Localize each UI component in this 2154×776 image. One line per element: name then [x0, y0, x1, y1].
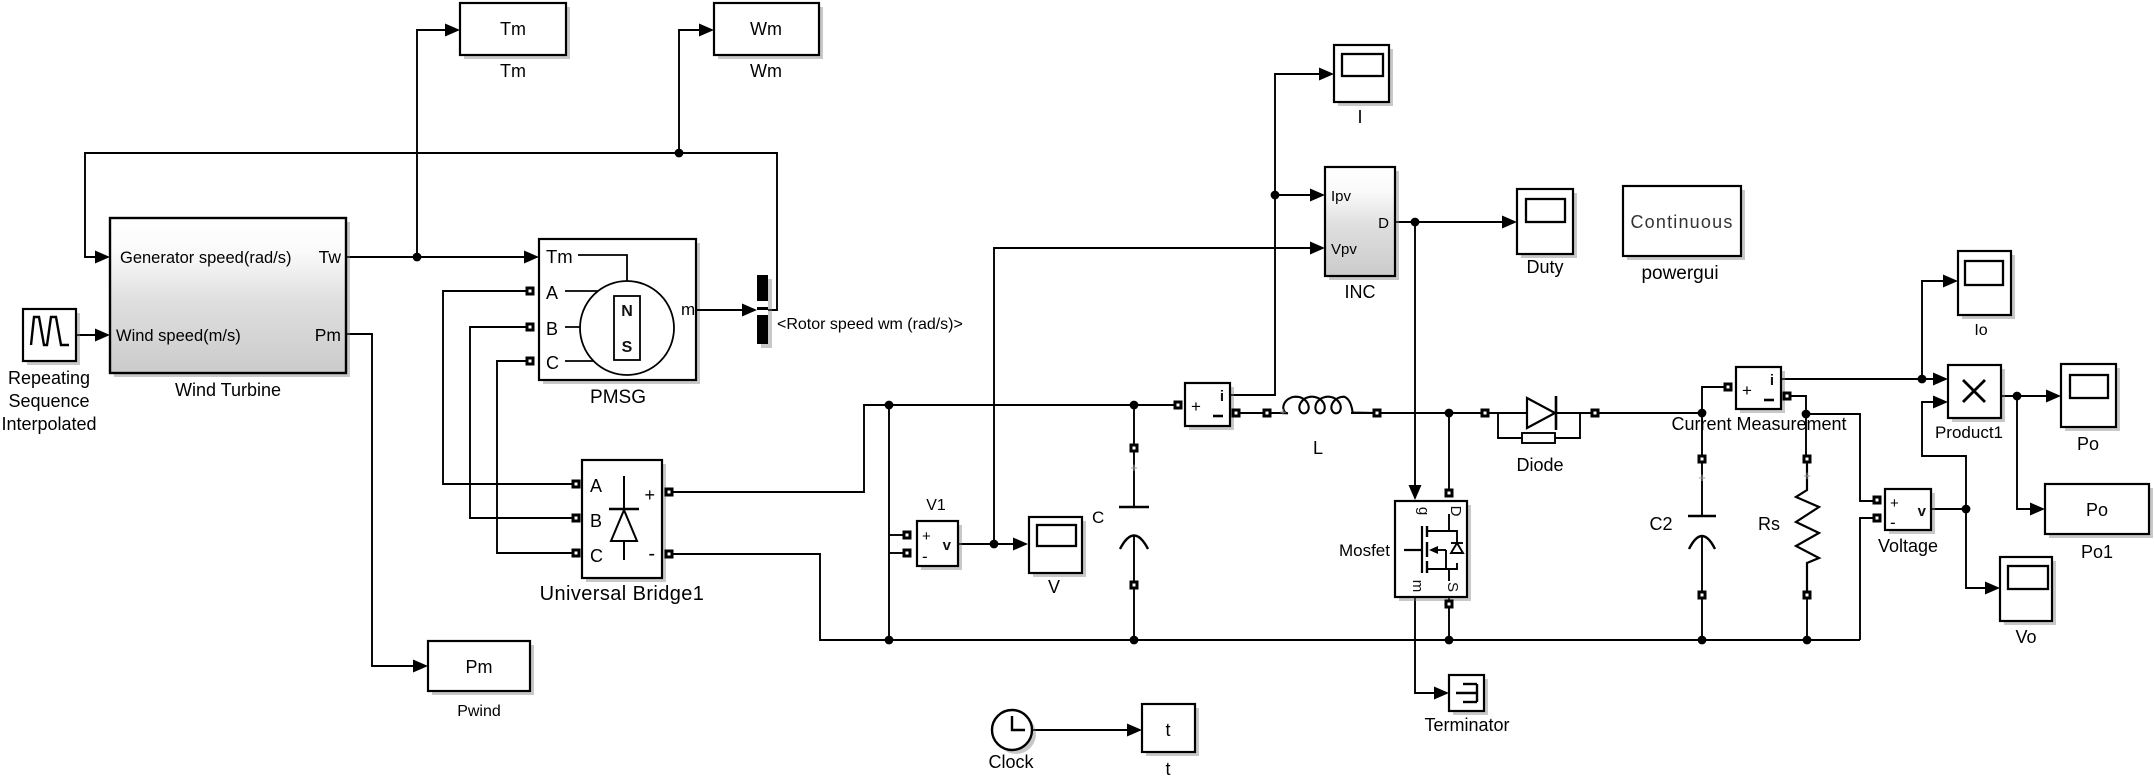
svg-text:C: C	[1092, 508, 1104, 527]
svg-text:Io: Io	[1974, 322, 1987, 339]
svg-text:Tm: Tm	[546, 246, 573, 267]
svg-text:-: -	[922, 547, 928, 566]
svg-text:B: B	[590, 511, 602, 531]
svg-text:I: I	[1357, 107, 1362, 127]
svg-text:Wind Turbine: Wind Turbine	[175, 380, 281, 400]
svg-text:C: C	[590, 546, 603, 566]
svg-text:Tm: Tm	[500, 61, 526, 81]
svg-text:+: +	[1698, 470, 1706, 485]
svg-text:i: i	[1220, 388, 1224, 405]
svg-text:Voltage: Voltage	[1878, 536, 1938, 556]
svg-text:Po1: Po1	[2081, 542, 2113, 562]
svg-text:V: V	[1048, 577, 1060, 597]
svg-text:Tm: Tm	[500, 19, 526, 39]
svg-text:+: +	[1890, 495, 1899, 512]
svg-text:Repeating: Repeating	[8, 368, 90, 388]
svg-text:C: C	[546, 353, 559, 373]
svg-text:Duty: Duty	[1526, 257, 1563, 277]
svg-text:Sequence: Sequence	[8, 391, 89, 411]
svg-text:Rs: Rs	[1758, 514, 1780, 534]
svg-text:S: S	[622, 339, 633, 356]
svg-text:v: v	[1918, 503, 1927, 520]
svg-text:m: m	[681, 300, 695, 319]
svg-text:Wind speed(m/s): Wind speed(m/s)	[116, 327, 241, 345]
svg-text:C2: C2	[1649, 514, 1672, 534]
svg-text:Clock: Clock	[988, 752, 1034, 772]
svg-text:Universal Bridge1: Universal Bridge1	[540, 583, 705, 605]
svg-text:+: +	[644, 485, 655, 505]
svg-text:+: +	[1130, 460, 1138, 475]
svg-text:B: B	[546, 319, 558, 339]
svg-text:+: +	[1803, 468, 1811, 483]
svg-text:-: -	[648, 543, 655, 565]
svg-text:Vo: Vo	[2015, 627, 2036, 647]
svg-text:Continuous: Continuous	[1630, 212, 1733, 232]
svg-text:Vpv: Vpv	[1331, 241, 1357, 258]
svg-text:Pwind: Pwind	[457, 703, 501, 720]
svg-text:S: S	[1444, 582, 1461, 592]
svg-text:Interpolated: Interpolated	[1, 414, 96, 434]
svg-text:N: N	[621, 303, 633, 320]
svg-text:+: +	[1742, 381, 1752, 400]
svg-text:L: L	[1313, 438, 1323, 458]
svg-text:Ipv: Ipv	[1331, 188, 1352, 205]
svg-text:-: -	[1890, 513, 1896, 532]
svg-text:Current Measurement: Current Measurement	[1671, 414, 1846, 434]
svg-text:V1: V1	[926, 497, 946, 514]
svg-text:D: D	[1378, 215, 1389, 232]
svg-text:Generator speed(rad/s): Generator speed(rad/s)	[120, 249, 292, 267]
svg-text:Pm: Pm	[315, 325, 341, 345]
svg-text:Product1: Product1	[1935, 423, 2003, 442]
svg-text:+: +	[922, 528, 931, 545]
svg-text:A: A	[590, 476, 602, 496]
svg-text:Tw: Tw	[319, 247, 342, 267]
svg-text:+: +	[1279, 405, 1286, 419]
svg-text:t: t	[1165, 720, 1170, 740]
svg-text:Wm: Wm	[750, 61, 782, 81]
svg-text:Mosfet: Mosfet	[1339, 541, 1390, 560]
svg-text:i: i	[1770, 372, 1774, 389]
svg-text:<Rotor speed wm (rad/s)>: <Rotor speed wm (rad/s)>	[777, 316, 963, 333]
svg-text:Po: Po	[2077, 434, 2099, 454]
svg-text:v: v	[943, 537, 952, 554]
svg-text:Pm: Pm	[466, 657, 493, 677]
svg-text:t: t	[1165, 759, 1170, 776]
svg-text:PMSG: PMSG	[590, 387, 646, 408]
svg-text:Terminator: Terminator	[1424, 715, 1509, 735]
svg-text:Wm: Wm	[750, 19, 782, 39]
svg-text:INC: INC	[1345, 282, 1376, 302]
svg-text:A: A	[546, 283, 558, 303]
svg-text:Diode: Diode	[1516, 455, 1563, 475]
svg-text:+: +	[1191, 397, 1201, 416]
svg-text:m: m	[1409, 580, 1426, 593]
svg-text:powergui: powergui	[1641, 263, 1718, 284]
svg-text:Po: Po	[2086, 500, 2108, 520]
svg-text:g: g	[1415, 507, 1432, 515]
